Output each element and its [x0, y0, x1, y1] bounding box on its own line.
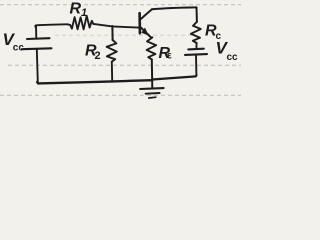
- battery V1 bottom plate: [22, 47, 52, 50]
- wire: RC top lead: [196, 7, 198, 21]
- resistor R1: [68, 16, 94, 30]
- transistor Q1 emitter: [140, 27, 151, 38]
- ground bar 1: [140, 87, 163, 90]
- label R1: [70, 1, 88, 20]
- label RE: [159, 45, 173, 62]
- wire: right vertical (battery V2 to bottom rail): [195, 55, 197, 75]
- wire: RC to battery V2: [195, 43, 197, 49]
- svg-text:cc: cc: [13, 43, 25, 54]
- label Vcc (left): [3, 30, 25, 54]
- wire: R2 top lead (junction at top rail): [111, 26, 113, 40]
- svg-text:1: 1: [81, 7, 87, 19]
- battery V2 bottom plate: [185, 53, 207, 56]
- battery V1 top lead: [35, 26, 37, 38]
- wire: R1 to transistor base: [93, 24, 138, 28]
- transistor Q1 collector: [140, 9, 152, 19]
- transistor Q1 base bar: [138, 13, 141, 33]
- battery V1 top plate: [27, 37, 50, 40]
- transistor Q1 emitter arrowhead: [142, 28, 148, 35]
- wire: bottom rail left segment: [37, 80, 152, 83]
- ground bar 2: [146, 92, 160, 95]
- svg-text:2: 2: [95, 50, 101, 62]
- wire: collector top rail: [152, 7, 197, 9]
- resistor R2: [107, 40, 117, 62]
- resistor RC: [191, 22, 201, 43]
- wire: left vertical (battery to bottom rail): [37, 49, 38, 83]
- label RC: [205, 23, 222, 43]
- paper ruling (decorative): [0, 5, 241, 96]
- svg-text:cc: cc: [227, 52, 239, 63]
- label R2: [85, 43, 101, 63]
- svg-text:ε: ε: [167, 51, 172, 62]
- label Vcc (right): [216, 39, 239, 63]
- resistor RE: [147, 37, 157, 59]
- wire: top rail left segment: [35, 24, 67, 26]
- wire: R2 bottom lead: [111, 62, 113, 81]
- ground bar 3: [149, 96, 156, 99]
- wire: bottom rail right segment: [152, 75, 196, 79]
- wire: RE bottom lead (through bottom-rail junction to ground): [151, 59, 154, 88]
- svg-text:R: R: [70, 1, 82, 18]
- battery V2 top plate: [188, 48, 204, 51]
